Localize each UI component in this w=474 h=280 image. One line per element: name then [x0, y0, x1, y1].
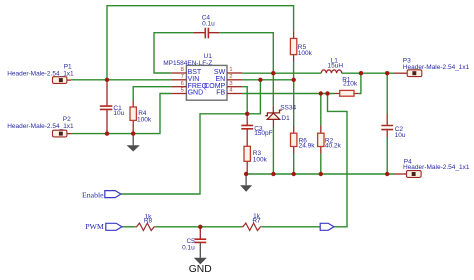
svg-text:210k: 210k	[343, 81, 358, 88]
wire FB jog to PWM injection column	[328, 94, 348, 227]
svg-text:100k: 100k	[253, 156, 268, 163]
diode D1 SS34	[265, 105, 296, 128]
net flag PWM injection (unnamed)	[320, 223, 334, 230]
junction bus R2	[319, 172, 323, 176]
svg-text:100k: 100k	[137, 117, 152, 124]
svg-text:Header-Male-2.54_1x1: Header-Male-2.54_1x1	[7, 123, 74, 130]
junction FB-R2 node	[319, 91, 323, 95]
wire P2 row to U1 GND pin	[71, 94, 172, 134]
junction C2 top node	[385, 71, 389, 75]
wire R6 bottom to bus	[293, 154, 295, 175]
svg-text:R8: R8	[144, 218, 153, 225]
wire PWM tag to R8	[122, 226, 135, 228]
svg-text:15uH: 15uH	[328, 62, 344, 69]
junction P1-VIN node	[105, 78, 109, 82]
U1 pin 4 FB	[216, 88, 242, 97]
svg-text:PWM: PWM	[85, 222, 104, 231]
junction EN-Enable node	[258, 78, 262, 82]
wire R5 bottom to EN node	[293, 62, 295, 80]
svg-text:Header-Male-2.54_1x1: Header-Male-2.54_1x1	[403, 64, 470, 71]
svg-text:7: 7	[181, 74, 184, 80]
junction SW node	[271, 71, 275, 75]
wire L1 to P3	[342, 72, 394, 74]
wire FB node to R2 top	[320, 94, 322, 126]
wire R8 to C5 node	[156, 226, 242, 228]
U1 pin 1 SW	[214, 67, 242, 76]
svg-text:0.1u: 0.1u	[202, 20, 215, 27]
capacitor C5	[182, 227, 206, 252]
wire U1 COMP to C3 node	[242, 87, 247, 114]
junction bus C2	[385, 172, 389, 176]
wire GND bus	[246, 173, 394, 175]
svg-text:R7: R7	[252, 217, 261, 224]
wire R7 to PWM injection tag	[262, 226, 320, 228]
connector P4	[394, 159, 470, 178]
resistor R7 (zigzag)	[242, 213, 262, 231]
resistor R3	[244, 146, 268, 174]
svg-text:P2: P2	[63, 116, 71, 123]
svg-text:100k: 100k	[298, 50, 313, 57]
capacitor C2	[381, 115, 406, 140]
resistor R4	[130, 101, 152, 134]
resistor R1	[335, 76, 359, 96]
junction R4 bottom P2 row	[131, 131, 135, 135]
U1 pin 7 VIN	[171, 74, 199, 83]
svg-text:150pF: 150pF	[254, 130, 272, 137]
wire U1 EN row	[242, 79, 294, 81]
wire EN node down to R6	[293, 80, 295, 126]
svg-text:3: 3	[229, 81, 232, 87]
junction FB jog node	[325, 91, 329, 95]
wire Enable net	[121, 80, 260, 194]
svg-text:10u: 10u	[395, 132, 406, 139]
wire R1 right to output node	[359, 73, 361, 93]
resistor R8 (zigzag)	[135, 214, 155, 231]
junction C1 bottom P2 row	[105, 131, 109, 135]
ground on GND bus	[240, 174, 252, 192]
capacitor C1	[100, 81, 125, 134]
svg-text:SS34: SS34	[280, 105, 296, 112]
capacitor C3	[241, 114, 272, 147]
U1 pin 6 FREQ	[171, 81, 207, 90]
resistor R6	[291, 126, 316, 154]
op-amp U1 MP1584EN-LF-Z body	[163, 53, 227, 100]
net flag PWM	[85, 222, 122, 231]
svg-text:6: 6	[181, 81, 184, 87]
capacitor C4	[193, 14, 219, 38]
junction PWM C5 node	[198, 225, 202, 229]
junction COMP-C3-Enable node	[245, 112, 249, 116]
junction bus D1	[271, 172, 275, 176]
wire P1 to U1 VIN	[71, 79, 172, 81]
wire output node to C2 top	[386, 73, 388, 114]
ground GND under C5	[189, 242, 212, 275]
resistor R2	[318, 126, 342, 154]
svg-text:MP1584EN-LF-Z: MP1584EN-LF-Z	[163, 60, 212, 67]
connector P2	[7, 116, 74, 137]
svg-text:P1: P1	[64, 63, 72, 70]
wire C4 left to U1 BST	[154, 33, 193, 73]
wire U1 FREQ to R4 top	[133, 87, 171, 101]
wire R2 bottom to bus	[320, 154, 322, 175]
svg-text:Enable: Enable	[82, 190, 104, 199]
U1 pin 3 COMP	[204, 81, 242, 90]
wire SW node to D1 cathode	[272, 73, 274, 106]
svg-text:1: 1	[229, 67, 232, 73]
wire U1 FB row to R1	[242, 93, 334, 95]
svg-text:10u: 10u	[113, 110, 124, 117]
connector P3	[394, 57, 470, 76]
wire U1 SW to L1	[242, 72, 321, 74]
U1 pin 8 BST	[171, 67, 202, 76]
svg-text:GND: GND	[189, 264, 212, 275]
wire VIN top rail P1 node to R5 top	[107, 6, 294, 80]
wire C4 right to SW node	[219, 33, 273, 73]
svg-text:0.1u: 0.1u	[182, 244, 195, 251]
svg-text:Header-Male-2.54_1x1: Header-Male-2.54_1x1	[403, 164, 470, 171]
junction EN-R5-R6 node	[292, 78, 296, 82]
junction L1 out node	[359, 71, 363, 75]
svg-text:24.9k: 24.9k	[299, 143, 316, 150]
svg-text:D1: D1	[281, 115, 290, 122]
inductor L1	[321, 57, 343, 73]
svg-text:U1: U1	[204, 53, 213, 60]
net flag Enable	[82, 190, 121, 199]
resistor R5	[290, 32, 312, 62]
wire D1 anode to GND bus	[272, 128, 274, 175]
svg-text:FB: FB	[216, 90, 225, 97]
connector P1	[7, 63, 74, 83]
junction bus R3	[244, 172, 248, 176]
svg-text:2: 2	[229, 74, 232, 80]
ground under R4	[127, 134, 140, 152]
svg-text:5: 5	[181, 88, 184, 94]
svg-text:Header-Male-2.54_1x1: Header-Male-2.54_1x1	[7, 70, 74, 77]
svg-text:8: 8	[181, 67, 184, 73]
svg-text:4: 4	[229, 88, 233, 94]
wire C2 bottom to bus	[386, 137, 388, 174]
U1 pin 5 GND	[171, 88, 203, 97]
svg-text:GND: GND	[188, 90, 204, 97]
svg-text:40.2k: 40.2k	[325, 143, 342, 150]
junction bus R6	[292, 172, 296, 176]
U1 pin 2 EN	[215, 74, 242, 83]
